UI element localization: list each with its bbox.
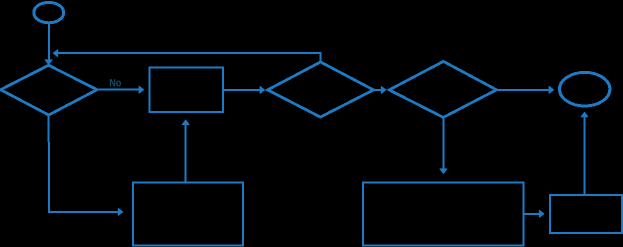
decision diamond D2 <box>268 62 374 117</box>
wire: R3 right to R4 <box>525 213 540 215</box>
process box R2 <box>133 182 243 245</box>
end ellipse (terminator) <box>560 72 610 106</box>
wire: D2 right to decision D3 <box>374 89 382 91</box>
decision diamond D1 <box>1 65 97 115</box>
wire: R2 top up toward R1 <box>185 124 187 182</box>
process box R4 <box>550 195 622 233</box>
wire: R4 top up toward end ellipse <box>583 117 585 195</box>
wire: D3 right to end ellipse <box>497 89 550 91</box>
wire: D1 bottom down and right toward R2 <box>49 115 119 212</box>
wire: D3 bottom down toward R3 <box>442 117 444 169</box>
start ellipse (terminator) <box>34 2 64 22</box>
decision diamond D3 <box>389 61 496 117</box>
process box R1 <box>149 68 222 112</box>
wire: R1 right to decision D2 <box>223 89 260 91</box>
wire: start ellipse down to decision D1 <box>48 23 50 61</box>
process box R3 <box>363 182 524 245</box>
feedback wire: D2 top up and left to start wire <box>58 53 321 62</box>
svg-text:No: No <box>109 78 121 90</box>
wire: D1 right to R1, labelled No <box>97 89 140 91</box>
